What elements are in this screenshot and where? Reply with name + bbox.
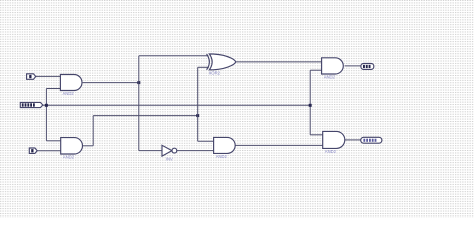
svg-text:INV: INV bbox=[166, 156, 173, 161]
node B junction left bbox=[45, 104, 48, 107]
and-gate U6 AND2 bbox=[322, 58, 344, 74]
svg-text:AND2: AND2 bbox=[216, 154, 228, 159]
node mid junction bbox=[196, 114, 199, 117]
input port A bbox=[27, 74, 36, 80]
wire to U4 inverter input bbox=[139, 150, 162, 152]
svg-text:AND2: AND2 bbox=[325, 149, 337, 154]
wire C port to U2 bbox=[37, 150, 60, 152]
wire U7 output to port bbox=[345, 139, 361, 141]
node U1 output junction bbox=[137, 81, 140, 84]
wire to U7 top input bbox=[310, 134, 323, 136]
wire U6 output to port bbox=[345, 65, 361, 67]
wire A port to U1 bbox=[36, 75, 61, 77]
svg-text:XOR2: XOR2 bbox=[209, 70, 221, 75]
wire to U3 top input bbox=[139, 55, 209, 57]
wire U4 inverter output to U5 bbox=[177, 150, 214, 152]
and-gate U5 AND2 bbox=[214, 137, 236, 153]
wire U2 output horizontal bbox=[93, 115, 198, 117]
and-gate U2 AND2 bbox=[61, 138, 83, 154]
wire branch B to U2 upper input bbox=[46, 140, 60, 142]
inverter U4 INV bbox=[162, 145, 172, 156]
and-gate U7 AND2 bbox=[323, 131, 345, 148]
wire vertical x=138.8 bbox=[138, 56, 140, 151]
wire net B vertical branch bbox=[45, 89, 47, 141]
node B junction right bbox=[309, 104, 312, 107]
wire vertical x=310 branch of B bbox=[309, 70, 311, 135]
svg-text:AND2: AND2 bbox=[63, 91, 75, 96]
input port B bbox=[20, 102, 43, 107]
output port carry bbox=[361, 137, 382, 143]
wire vertical x=197.7 down to U5 bbox=[197, 116, 199, 142]
xor-gate U3 XOR2 bbox=[207, 54, 210, 70]
wire to U3 bottom input bbox=[198, 66, 209, 68]
wire branch B to U1 lower input bbox=[46, 88, 60, 90]
svg-text:AND2: AND2 bbox=[324, 75, 336, 80]
input port C bbox=[29, 148, 37, 153]
and-gate U1 AND2 bbox=[60, 75, 82, 91]
wire U1 output bbox=[83, 82, 139, 84]
output port S bbox=[361, 64, 374, 70]
wire net B horizontal bbox=[43, 104, 310, 106]
wire to U6 bottom input bbox=[310, 69, 321, 71]
wire vertical x=197.7 up to U3 bbox=[197, 67, 199, 115]
wire U2 output bbox=[83, 145, 93, 147]
svg-text:AND2: AND2 bbox=[63, 155, 75, 160]
wire U5 output to U7 bottom input bbox=[235, 144, 322, 146]
wire U2 output vertical bbox=[92, 116, 94, 146]
wire U3 xor output to U6 bbox=[236, 61, 322, 63]
wire to U5 top input bbox=[198, 140, 214, 142]
